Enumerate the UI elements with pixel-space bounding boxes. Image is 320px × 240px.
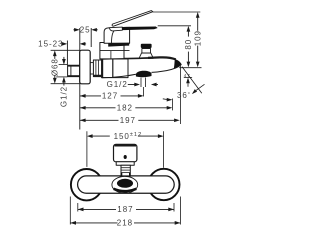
svg-text:109: 109 [193,30,202,46]
extension line 25 right [90,28,92,47]
svg-text:182: 182 [117,104,133,113]
spout nose oval front view [112,176,138,193]
svg-text:Ø68: Ø68 [50,58,59,76]
svg-text:127: 127 [102,92,118,101]
spout axis diagonal 36 degrees [182,67,202,94]
dimension 127 [80,92,144,101]
nose bottom shadow arc [114,189,137,191]
svg-text:36°: 36° [177,91,191,100]
svg-text:25: 25 [80,26,91,35]
wall line [66,41,68,66]
svg-text:197: 197 [120,116,136,125]
mini dimension 47 [184,73,192,87]
handle open position side view [112,11,153,27]
union nut side view [90,60,102,77]
cartridge block side view [100,43,130,59]
cartridge collar front view [116,162,134,165]
outlet stub extension lines [141,78,145,97]
dimension 25 [73,26,97,35]
reference line lever open top [153,11,200,13]
bottom reference line spout tip [179,67,201,69]
escutcheon left front view [71,169,102,200]
escutcheon right front view [148,169,179,200]
svg-text:G1/2: G1/2 [107,80,128,89]
aerator front view [117,179,133,188]
svg-text:G1/2: G1/2 [59,86,68,107]
mounting face extension line [79,28,81,130]
spout top edge [102,58,124,61]
diverter knob side view [139,44,153,59]
spout underside [152,64,182,72]
dimension Ø68 [50,50,79,83]
svg-text:187: 187 [117,205,133,214]
svg-text:15-23: 15-23 [38,40,63,49]
spout tip fill [174,59,182,69]
dimension 187 [78,203,174,214]
valve body side view [102,59,128,78]
dimension 15-23 [38,40,86,49]
dimension 197 [80,116,180,125]
reference line lever closed top [158,25,191,27]
cartridge neck front view [121,165,130,176]
handle closed position side view [110,27,158,31]
dimension G1/2 left [56,57,68,107]
dimension 182 [80,99,172,113]
handle front view [114,144,137,162]
aerator dome side view [136,71,152,77]
angle leader arrow left [163,98,173,102]
angle leader arrow [192,84,205,94]
label G1/2 bottom [107,80,158,89]
svg-text:80: 80 [184,39,193,50]
body capsule front view [78,176,175,193]
dimension 218 [70,197,180,228]
dimension 80 [184,26,193,67]
dimension 150 plus minus 12 [87,131,164,168]
svg-text:218: 218 [117,219,133,228]
handle dome side view [104,27,130,46]
escutcheon side view [80,50,91,84]
dimension 109 [193,12,202,67]
spout tip extension line vertical [179,65,181,124]
wall union fitting [68,65,80,76]
